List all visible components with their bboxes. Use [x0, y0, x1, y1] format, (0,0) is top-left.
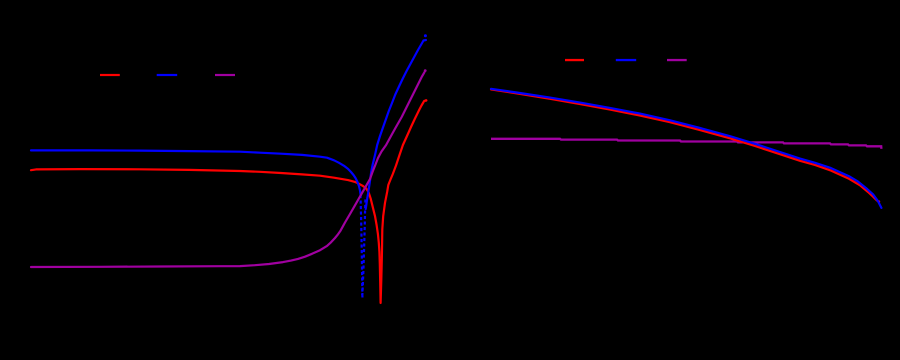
- right legend purple dash: [667, 59, 687, 61]
- left blue curve end marker: [424, 34, 427, 37]
- left purple curve end marker: [424, 69, 427, 72]
- left legend purple dash: [215, 74, 235, 76]
- left legend blue dash: [157, 74, 178, 76]
- right legend blue dash: [616, 59, 636, 61]
- left plot blue dashed hairpin (negative region, log spike down): [361, 195, 366, 295]
- left plot blue curve rising branch with end hook: [366, 40, 426, 209]
- left plot red curve: flat, descent into sharp V dip, rising branch with end hook: [31, 100, 426, 303]
- right plot red curve (under blue, offset below): [491, 89, 877, 200]
- right plot purple curve: nearly flat stepped decline with end tick: [491, 139, 881, 149]
- right legend red dash: [565, 59, 584, 61]
- blue hairpin bottom vertex dash: [361, 294, 363, 298]
- left plot blue curve solid part: flat then descent to zero-crossing: [31, 150, 361, 195]
- left plot purple curve: flat, elbow, straight rise: [31, 72, 424, 267]
- left red curve end marker: [425, 99, 428, 102]
- left legend red dash: [100, 74, 120, 76]
- right red curve end marker: [877, 200, 880, 203]
- right plot blue curve: [491, 89, 881, 208]
